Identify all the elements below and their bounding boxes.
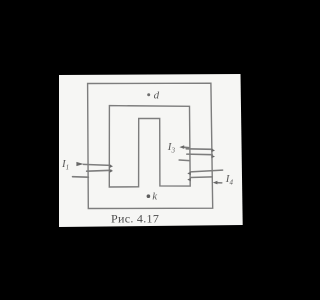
svg-text:Рис. 4.17: Рис. 4.17 bbox=[111, 212, 159, 226]
svg-text:k: k bbox=[152, 192, 157, 203]
svg-text:d: d bbox=[154, 89, 160, 101]
